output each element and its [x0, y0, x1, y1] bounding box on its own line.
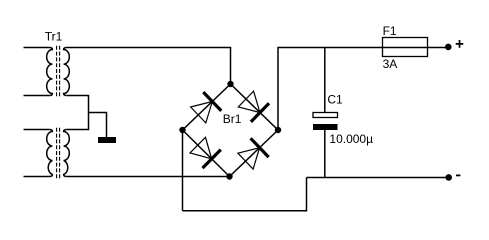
diode D4 cathode bar: [251, 138, 269, 157]
node bridge right: [275, 127, 281, 133]
wire secondary series link: [67, 96, 89, 130]
diode D2 cathode bar: [251, 103, 269, 122]
terminal negative minus sign: [456, 174, 460, 176]
diode D2 triangle: [238, 91, 260, 112]
diode D4 triangle: [238, 148, 260, 169]
node bridge top: [227, 81, 233, 87]
node bridge bottom: [226, 173, 232, 179]
diode D1 cathode bar: [203, 92, 221, 111]
capacitor C1 bottom plate: [313, 124, 338, 130]
wire primary winding2 bottom lead: [24, 176, 50, 178]
wire primary winding2 top lead: [24, 129, 50, 131]
wire negative rail: [307, 177, 449, 179]
node bridge left: [179, 127, 185, 133]
wire secondary bottom to bridge bottom node: [67, 176, 230, 178]
wire bridge left node down: [182, 130, 184, 211]
wire center tap to ground: [89, 113, 107, 138]
svg-text:3A: 3A: [383, 57, 398, 71]
transformer Tr1 secondary coil upper: [64, 48, 70, 96]
wire bridge right node to positive rail: [278, 48, 448, 131]
transformer Tr1 primary coil lower: [47, 130, 53, 177]
fuse F1 body: [383, 38, 428, 57]
terminal positive plus sign: [456, 40, 464, 48]
diode D1 triangle: [191, 102, 213, 123]
transformer Tr1 core lower: [57, 128, 60, 179]
wire primary winding1 bottom lead: [24, 95, 50, 97]
svg-text:10.000µ: 10.000µ: [329, 132, 373, 146]
svg-text:Tr1: Tr1: [45, 29, 63, 43]
svg-text:F1: F1: [383, 24, 397, 38]
transformer Tr1 core upper: [57, 46, 60, 98]
wire bypass bottom: [183, 178, 307, 211]
bridge edge top-right: [231, 84, 279, 130]
wire primary top lead: [24, 47, 50, 49]
terminal negative dot: [445, 174, 452, 181]
svg-text:Br1: Br1: [223, 112, 242, 126]
transformer Tr1 primary coil upper: [47, 48, 53, 96]
wire secondary top to bridge top node: [67, 48, 231, 85]
ground: [98, 137, 116, 143]
capacitor C1 top wire: [324, 48, 326, 113]
diode D3 cathode bar: [203, 150, 221, 169]
svg-text:C1: C1: [327, 93, 343, 107]
capacitor C1 bottom wire: [324, 130, 326, 178]
capacitor C1 top plate: [313, 113, 338, 118]
bridge edge left-top: [183, 84, 231, 130]
terminal positive dot: [445, 44, 452, 51]
bridge edge bottom-right: [230, 130, 279, 177]
bridge edge left-bottom: [183, 130, 230, 177]
diode D3 triangle: [190, 137, 212, 159]
transformer Tr1 secondary coil lower: [64, 130, 70, 177]
